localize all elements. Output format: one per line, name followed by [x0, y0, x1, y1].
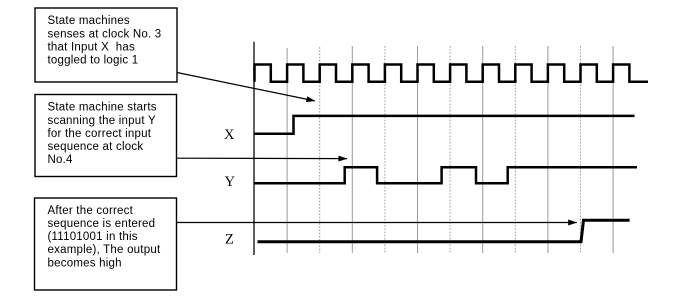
gridline 7	[482, 46, 484, 253]
gridline 10	[580, 46, 582, 253]
svg-text:Z: Z	[225, 231, 234, 247]
svg-text:After the correct: After the correct	[48, 205, 134, 217]
svg-text:State machine starts: State machine starts	[48, 102, 157, 114]
signal X waveform	[254, 116, 635, 134]
gridline 9	[547, 46, 549, 253]
gridline 5	[417, 46, 419, 253]
gridline 1	[286, 48, 288, 253]
gridline 4	[384, 46, 386, 253]
gridline 6	[449, 46, 451, 253]
svg-text:No.4: No.4	[48, 154, 74, 166]
callout box 3	[35, 198, 177, 290]
vertical axis	[253, 42, 255, 255]
gridline 11	[612, 46, 614, 253]
signal Y waveform	[254, 167, 637, 183]
svg-text:X: X	[224, 127, 235, 143]
gridline 8	[514, 46, 516, 253]
callout box 1	[35, 8, 177, 82]
arrow from box 3 to Z rising edge	[177, 222, 577, 224]
gridline 3	[351, 46, 353, 253]
svg-text:that Input X has: that Input X has	[48, 41, 136, 53]
svg-text:becomes high: becomes high	[48, 257, 122, 269]
svg-text:sequence is entered: sequence is entered	[48, 218, 156, 230]
svg-text:scanning the input Y: scanning the input Y	[48, 115, 157, 127]
svg-text:example), The output: example), The output	[48, 244, 161, 256]
callout box 2	[35, 95, 177, 177]
svg-text:Y: Y	[225, 174, 236, 190]
svg-text:(11101001 in this: (11101001 in this	[48, 231, 138, 243]
svg-text:sequence at clock: sequence at clock	[48, 141, 144, 153]
arrow from box 2 to Y at clock No. 4	[177, 157, 347, 159]
svg-text:State machines: State machines	[48, 15, 130, 27]
gridline 2	[319, 47, 321, 253]
svg-text:senses at clock No. 3: senses at clock No. 3	[48, 28, 162, 40]
svg-text:for the correct input: for the correct input	[48, 128, 152, 140]
signal Z waveform	[258, 220, 630, 241]
clock waveform	[255, 65, 649, 82]
arrow from box 1 to clock No. 3	[177, 73, 315, 101]
svg-text:toggled to logic 1: toggled to logic 1	[48, 55, 139, 67]
